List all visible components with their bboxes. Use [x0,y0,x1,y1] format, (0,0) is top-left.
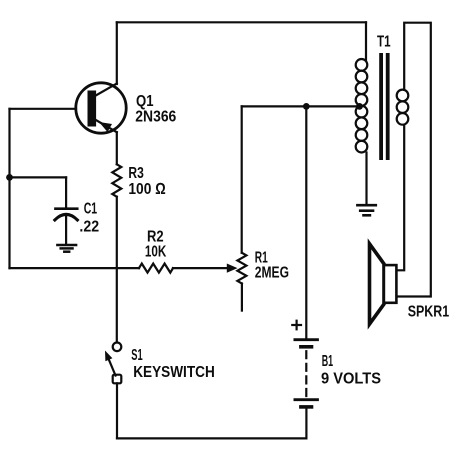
resistor R3 [112,164,121,196]
wire battery positive lead [305,106,307,338]
svg-text:T1: T1 [377,33,391,50]
svg-text:R3: R3 [128,165,143,182]
wiper arrowhead into R1 [227,264,238,273]
resistor R2 [139,264,173,273]
wire R3 to keyswitch [116,197,118,342]
wire mid rail to transformer tap [242,105,360,107]
potentiometer R1 [237,106,246,310]
svg-text:9 VOLTS: 9 VOLTS [321,371,381,388]
transformer T1 primary winding [356,59,368,152]
svg-text:2N366: 2N366 [135,109,176,126]
svg-text:S1: S1 [131,347,142,364]
wire transformer primary bottom lead [365,153,367,206]
speaker SPKR1 [370,244,397,324]
transistor Q1 [76,83,126,133]
svg-text:C1: C1 [84,200,97,217]
node junction C1 branch [6,174,13,181]
capacitor C1 [55,177,78,243]
wire secondary bottom lead to speaker [396,125,404,271]
wire bottom rail [117,437,306,439]
node junction transformer tap [356,103,363,110]
wire top rail [117,21,366,23]
switch S1 keyswitch [105,343,121,384]
wire keyswitch to bottom rail [116,383,118,438]
svg-text:Q1: Q1 [136,93,154,110]
svg-text:SPKR1: SPKR1 [408,304,450,321]
wire C1 branch [10,176,67,178]
wire R2 to wiper arrow [173,267,228,269]
plus sign [292,321,301,330]
wire battery negative lead [305,408,307,438]
transformer T1 core [379,53,389,160]
node junction battery rail [303,103,310,110]
svg-text:B1: B1 [322,353,333,370]
wire base lead [10,108,77,110]
svg-text:10K: 10K [145,244,167,261]
wire secondary top lead to speaker [396,23,430,297]
wire R2 feed [10,267,140,269]
wire emitter vertical [116,132,118,164]
transformer T1 secondary winding [397,90,409,125]
svg-text:KEYSWITCH: KEYSWITCH [133,364,215,381]
svg-text:100 Ω: 100 Ω [128,181,165,198]
svg-text:2MEG: 2MEG [255,265,289,282]
battery B1 [295,340,318,407]
wire transformer primary top lead [365,22,367,60]
ground under C1 [57,245,76,252]
ground under T1 [357,205,375,215]
wire collector vertical [116,22,118,84]
wire left vertical [8,109,10,268]
svg-text:.22: .22 [79,219,99,236]
